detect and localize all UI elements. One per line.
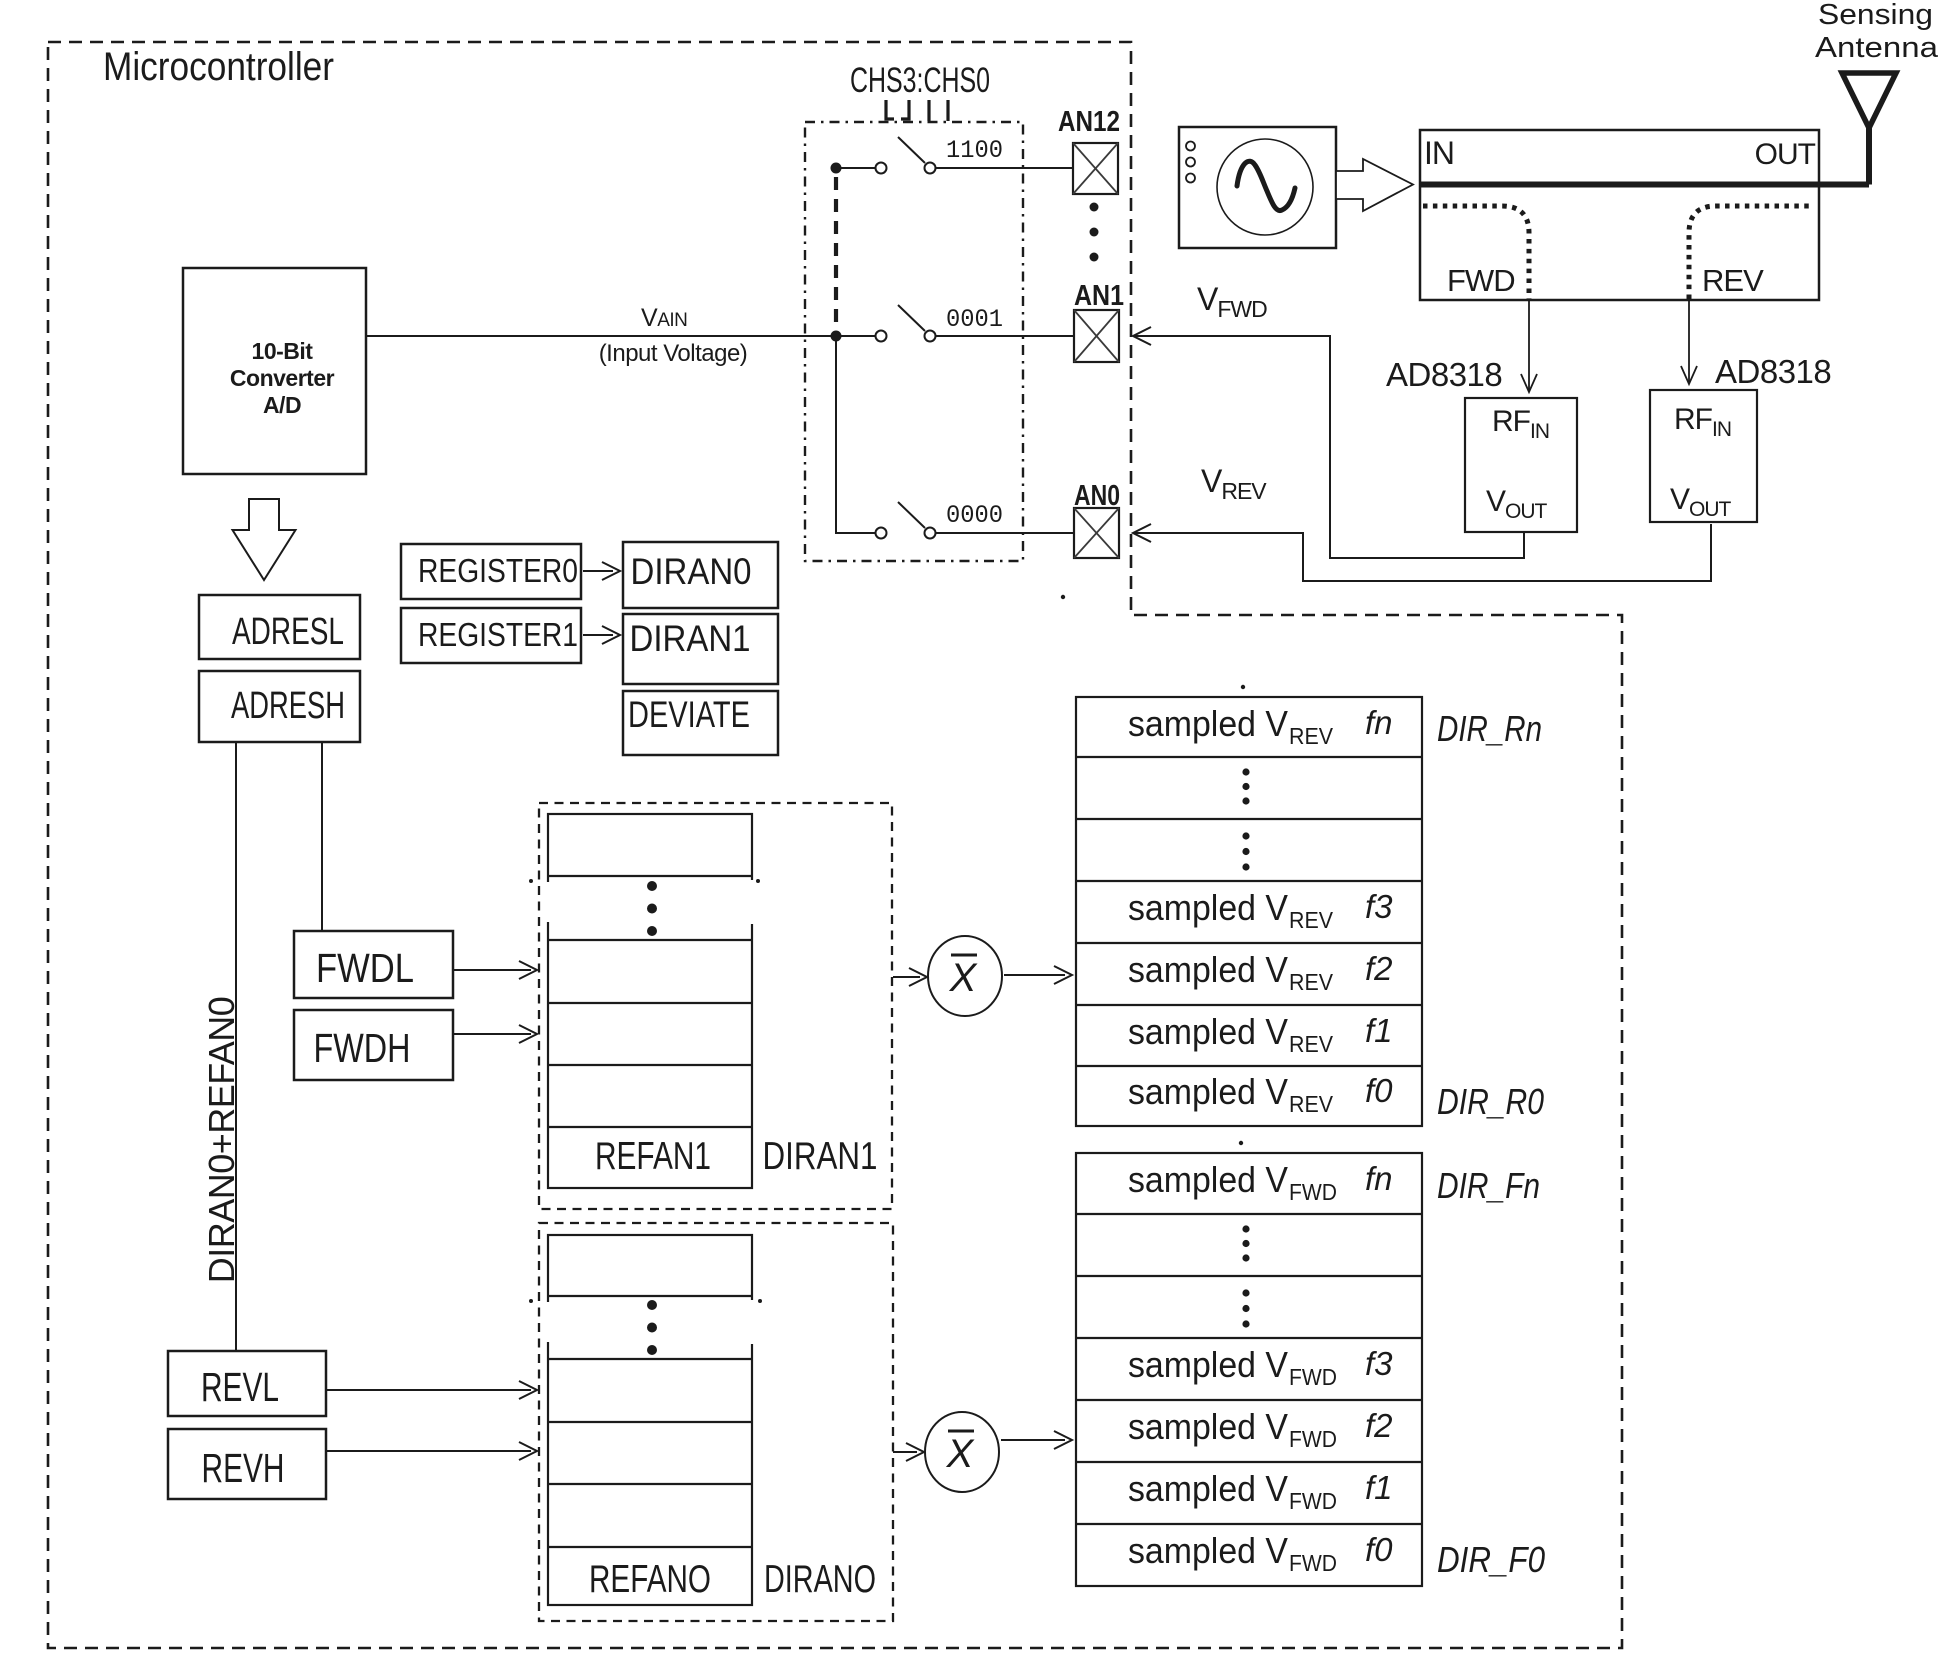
- wire bottom X-bar to VFWD table: [1001, 1439, 1065, 1441]
- svg-text:REV: REV: [1289, 723, 1334, 749]
- svg-text:fn: fn: [1365, 1160, 1393, 1197]
- svg-text:AN1: AN1: [1074, 280, 1124, 312]
- log detector U3 box: [1650, 390, 1757, 522]
- ellipsis between AN12 and AN1: [1090, 203, 1099, 212]
- svg-text:FWD: FWD: [1289, 1364, 1337, 1390]
- microcontroller dashed boundary: [48, 42, 1622, 1648]
- svg-text:AD8318: AD8318: [1386, 356, 1502, 393]
- switch S1 throw contact: [925, 163, 936, 174]
- wire REVH to DIRAN0 array: [326, 1450, 531, 1452]
- switch S2 lever: [898, 305, 925, 331]
- averaging block bottom (X-bar): [925, 1412, 999, 1492]
- svg-text:f3: f3: [1365, 1345, 1393, 1382]
- svg-text:A/D: A/D: [263, 392, 301, 418]
- switch S1 lever: [898, 137, 925, 163]
- mux select line tick 2: [901, 100, 909, 119]
- svg-text:f2: f2: [1365, 1407, 1393, 1444]
- svg-text:FWD: FWD: [1289, 1488, 1337, 1514]
- wire junction2 to switch S2: [841, 335, 875, 337]
- svg-text:FWD: FWD: [1289, 1179, 1337, 1205]
- register REVL box: [168, 1351, 326, 1416]
- stray speck right of DIRAN0 array: [758, 1299, 762, 1303]
- svg-text:CHS3:CHS0: CHS3:CHS0: [850, 61, 990, 100]
- wire FWDH to DIRAN1 array: [453, 1033, 531, 1035]
- mux select line tick 3: [927, 100, 930, 121]
- svg-text:X: X: [946, 1432, 975, 1476]
- wire VAIN from A/D to mux: [366, 335, 833, 337]
- svg-text:sampled V: sampled V: [1128, 1071, 1288, 1112]
- svg-text:REV: REV: [1702, 263, 1764, 298]
- svg-text:f0: f0: [1365, 1072, 1393, 1109]
- svg-text:DEVIATE: DEVIATE: [628, 694, 750, 735]
- svg-text:AN0: AN0: [1074, 480, 1120, 512]
- DIRAN1 memory array: [548, 814, 752, 1188]
- channel pad AN12: [1073, 143, 1118, 194]
- table DIR_F row lines: [1076, 1213, 1422, 1215]
- wire junction1 to switch S1: [841, 167, 875, 169]
- log detector U2 box: [1465, 398, 1577, 532]
- stray speck below AN0: [1061, 595, 1065, 599]
- bold dashed bus junction1-junction2: [834, 177, 838, 328]
- register DIRAN0 box: [623, 542, 778, 608]
- RF through line: [1420, 182, 1869, 188]
- register DIRAN1 box: [623, 614, 778, 684]
- block arrow generator to coupler: [1336, 159, 1413, 211]
- svg-text:sampled V: sampled V: [1128, 1011, 1288, 1052]
- svg-text:ADRESL: ADRESL: [232, 611, 344, 653]
- svg-text:sampled V: sampled V: [1128, 1406, 1288, 1447]
- svg-text:DIR_F0: DIR_F0: [1437, 1539, 1545, 1580]
- svg-text:OUT: OUT: [1755, 138, 1816, 171]
- register REVH box: [168, 1429, 326, 1499]
- svg-text:FWD: FWD: [1289, 1426, 1337, 1452]
- wire ADRESH to REVL (DIRAN0+REFAN0 bus): [235, 742, 237, 1351]
- DIRAN0 array ellipsis: [647, 1300, 657, 1310]
- coupled port FWD dotted path: [1423, 206, 1529, 299]
- signal generator box: [1179, 127, 1336, 248]
- block arrow from A/D to result registers: [233, 499, 296, 580]
- DIRAN0 memory array: [548, 1235, 752, 1605]
- svg-text:Antenna: Antenna: [1815, 32, 1939, 64]
- register ADRESL box: [199, 595, 360, 659]
- svg-text:Microcontroller: Microcontroller: [103, 45, 334, 89]
- svg-text:DIR_R0: DIR_R0: [1437, 1081, 1544, 1122]
- switch S3 lever: [898, 502, 925, 528]
- stray speck above DIR_F table: [1239, 1141, 1243, 1145]
- svg-text:AD8318: AD8318: [1715, 353, 1831, 390]
- stray speck above DIR_R table: [1241, 685, 1245, 689]
- switch S1 pole contact: [876, 163, 887, 174]
- switch S3 throw contact: [925, 528, 936, 539]
- table DIR_R row lines: [1076, 756, 1422, 758]
- mux common node junction row2: [831, 331, 842, 342]
- svg-text:X: X: [949, 956, 978, 1000]
- svg-text:0000: 0000: [946, 501, 1003, 530]
- svg-text:FWDL: FWDL: [316, 945, 414, 991]
- wire REVL to DIRAN0 array: [326, 1389, 531, 1391]
- svg-text:DIRAN0+REFAN0: DIRAN0+REFAN0: [201, 997, 242, 1284]
- wire DIRAN1 region to top X-bar: [893, 976, 920, 978]
- mux common node junction row1: [831, 163, 842, 174]
- svg-text:REGISTER0: REGISTER0: [418, 552, 578, 589]
- directional coupler box: [1420, 130, 1819, 300]
- switch S2 throw contact: [925, 331, 936, 342]
- wire DIRAN0 region to bottom X-bar: [893, 1451, 917, 1453]
- stray speck right of DIRAN1 array: [756, 879, 760, 883]
- DIRAN0 array row lines: [548, 1295, 752, 1297]
- svg-text:DIRANO: DIRANO: [764, 1558, 876, 1601]
- wire VREV from AD8318 to AN0: [1133, 524, 1711, 581]
- wire REGISTER1 to DIRAN1 arrow: [583, 634, 613, 636]
- register REGISTER0 box: [401, 544, 581, 599]
- analog mux dotted box: [805, 122, 1023, 561]
- wire VFWD from AD8318 to AN1: [1133, 336, 1524, 558]
- sensing antenna symbol: [1842, 73, 1896, 128]
- svg-text:REFAN1: REFAN1: [595, 1135, 711, 1178]
- svg-text:f0: f0: [1365, 1531, 1393, 1568]
- svg-text:fn: fn: [1365, 704, 1393, 741]
- table DIR_R (sampled VREV) box: [1076, 697, 1422, 1126]
- svg-text:DIR_Fn: DIR_Fn: [1437, 1165, 1540, 1206]
- svg-text:REV: REV: [1289, 1031, 1334, 1057]
- signal generator circle: [1217, 139, 1313, 235]
- mux select line tick 1: [886, 100, 894, 119]
- signal generator sine wave: [1237, 161, 1295, 210]
- coupled port REV dotted path: [1689, 206, 1812, 299]
- svg-text:sampled V: sampled V: [1128, 1344, 1288, 1385]
- mux select line tick 4: [946, 100, 949, 121]
- wire REGISTER0 to DIRAN0 arrow: [583, 570, 613, 572]
- svg-text:(Input Voltage): (Input Voltage): [599, 340, 748, 367]
- register ADRESH box: [199, 671, 360, 742]
- svg-text:REVH: REVH: [202, 1445, 285, 1491]
- register REGISTER1 box: [401, 608, 581, 663]
- svg-text:sampled V: sampled V: [1128, 1468, 1288, 1509]
- svg-text:sampled V: sampled V: [1128, 949, 1288, 990]
- svg-text:Sensing: Sensing: [1818, 0, 1933, 31]
- wire top X-bar to VREV table: [1004, 974, 1065, 976]
- svg-text:DIRAN1: DIRAN1: [763, 1135, 878, 1178]
- DIRAN0 memory dashed region: [539, 1223, 893, 1621]
- svg-text:sampled V: sampled V: [1128, 1530, 1288, 1571]
- wire S3 to AN0: [936, 532, 1074, 534]
- svg-text:f1: f1: [1365, 1012, 1393, 1049]
- signal generator connector pins: [1186, 142, 1195, 151]
- stray speck left of DIRAN0 array: [529, 1299, 533, 1303]
- svg-text:REGISTER1: REGISTER1: [418, 616, 578, 653]
- svg-text:f1: f1: [1365, 1469, 1393, 1506]
- svg-text:f3: f3: [1365, 888, 1393, 925]
- table DIR_R ellipsis rows: [1242, 768, 1249, 775]
- 10-bit A/D converter block U1: [183, 268, 366, 474]
- svg-text:0001: 0001: [946, 305, 1003, 334]
- DIRAN1 memory dashed region: [539, 803, 892, 1209]
- wire FWDL to DIRAN1 array: [453, 969, 531, 971]
- channel pad AN1: [1074, 310, 1119, 362]
- svg-text:FWDH: FWDH: [314, 1025, 411, 1071]
- DIRAN0 array edge break whiteout: [546, 1302, 552, 1342]
- register FWDL box: [294, 931, 453, 998]
- svg-text:ADRESH: ADRESH: [231, 685, 345, 727]
- register FWDH box: [294, 1010, 453, 1080]
- switch S2 pole contact: [876, 331, 887, 342]
- DIRAN1 array edge break whiteout: [546, 882, 552, 922]
- svg-text:DIR_Rn: DIR_Rn: [1437, 708, 1542, 749]
- svg-text:sampled V: sampled V: [1128, 703, 1288, 744]
- channel pad AN0: [1074, 508, 1119, 558]
- switch S3 pole contact: [876, 528, 887, 539]
- svg-text:Converter: Converter: [230, 365, 335, 391]
- wire S2 to AN1: [936, 335, 1074, 337]
- svg-text:DIRAN0: DIRAN0: [631, 551, 752, 592]
- wire junction2 down to switch S3: [836, 341, 875, 533]
- register DEVIATE box: [623, 691, 778, 755]
- svg-text:f2: f2: [1365, 950, 1393, 987]
- averaging block top (X-bar): [928, 936, 1002, 1016]
- stray speck left of DIRAN1 array: [529, 879, 533, 883]
- DIRAN1 array ellipsis: [647, 881, 657, 891]
- svg-text:sampled V: sampled V: [1128, 1159, 1288, 1200]
- svg-text:REV: REV: [1289, 1091, 1334, 1117]
- table DIR_F ellipsis rows: [1242, 1225, 1249, 1232]
- svg-text:10-Bit: 10-Bit: [252, 338, 314, 364]
- svg-text:1100: 1100: [946, 136, 1003, 165]
- wire FWD port to AD8318 U2: [1528, 300, 1530, 390]
- DIRAN1 array row lines: [548, 875, 752, 877]
- svg-text:AN12: AN12: [1058, 106, 1120, 138]
- svg-text:IN: IN: [1424, 135, 1454, 171]
- wire S1 to AN12: [936, 167, 1073, 169]
- svg-text:REV: REV: [1289, 969, 1334, 995]
- svg-text:FWD: FWD: [1289, 1550, 1337, 1576]
- wire ADRESH to FWDL: [321, 742, 323, 931]
- svg-text:FWD: FWD: [1447, 263, 1515, 298]
- table DIR_F (sampled VFWD) box: [1076, 1153, 1422, 1586]
- wire REV port to AD8318 U3: [1688, 300, 1690, 382]
- svg-text:REV: REV: [1289, 907, 1334, 933]
- svg-text:REVL: REVL: [201, 1364, 279, 1410]
- svg-text:REFANO: REFANO: [589, 1558, 711, 1601]
- svg-text:DIRAN1: DIRAN1: [630, 618, 751, 659]
- svg-text:sampled V: sampled V: [1128, 887, 1288, 928]
